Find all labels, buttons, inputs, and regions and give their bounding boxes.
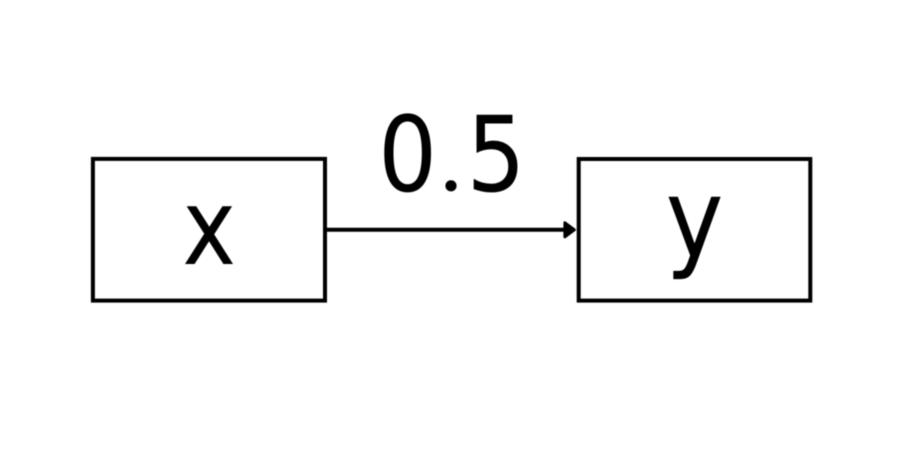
node x label xyxy=(185,206,233,264)
wire: edge x to y shaft xyxy=(325,228,565,232)
edge weight label 0.5: digit 5 xyxy=(474,115,518,193)
node y label xyxy=(668,197,720,279)
edge weight label 0.5: decimal point xyxy=(445,180,456,191)
node y box xyxy=(579,159,811,301)
edge weight label 0.5: digit 0 xyxy=(384,113,431,192)
node x box xyxy=(93,159,325,301)
edge x to y arrowhead xyxy=(565,223,574,237)
